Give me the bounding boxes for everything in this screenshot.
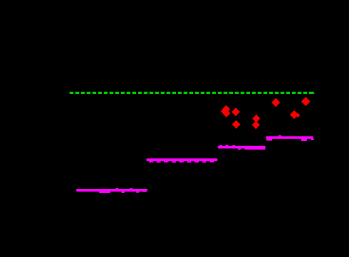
- magenta segment B (second step): [146, 158, 217, 162]
- red diamond marker d3: [232, 108, 240, 117]
- magenta segment A (bottom-left step): [76, 188, 147, 193]
- magenta segment C (third step): [218, 145, 266, 150]
- magenta segment D (top-right step): [266, 135, 314, 141]
- red diamond marker d7: [272, 98, 281, 107]
- red diamond marker d2b (small left wing): [221, 109, 226, 114]
- red diamond marker d9: [301, 97, 310, 106]
- red diamond marker d4: [232, 120, 240, 129]
- red diamond marker d1: [222, 105, 230, 113]
- red diamond marker d8: [290, 110, 299, 119]
- red diamond marker d5: [252, 114, 260, 123]
- red diamond marker d8b (small right bump): [296, 113, 301, 118]
- red diamond marker d6: [252, 121, 260, 130]
- red diamond marker d2: [222, 109, 230, 117]
- green dashed threshold line: [70, 92, 313, 94]
- green line terminal tick: [312, 92, 314, 94]
